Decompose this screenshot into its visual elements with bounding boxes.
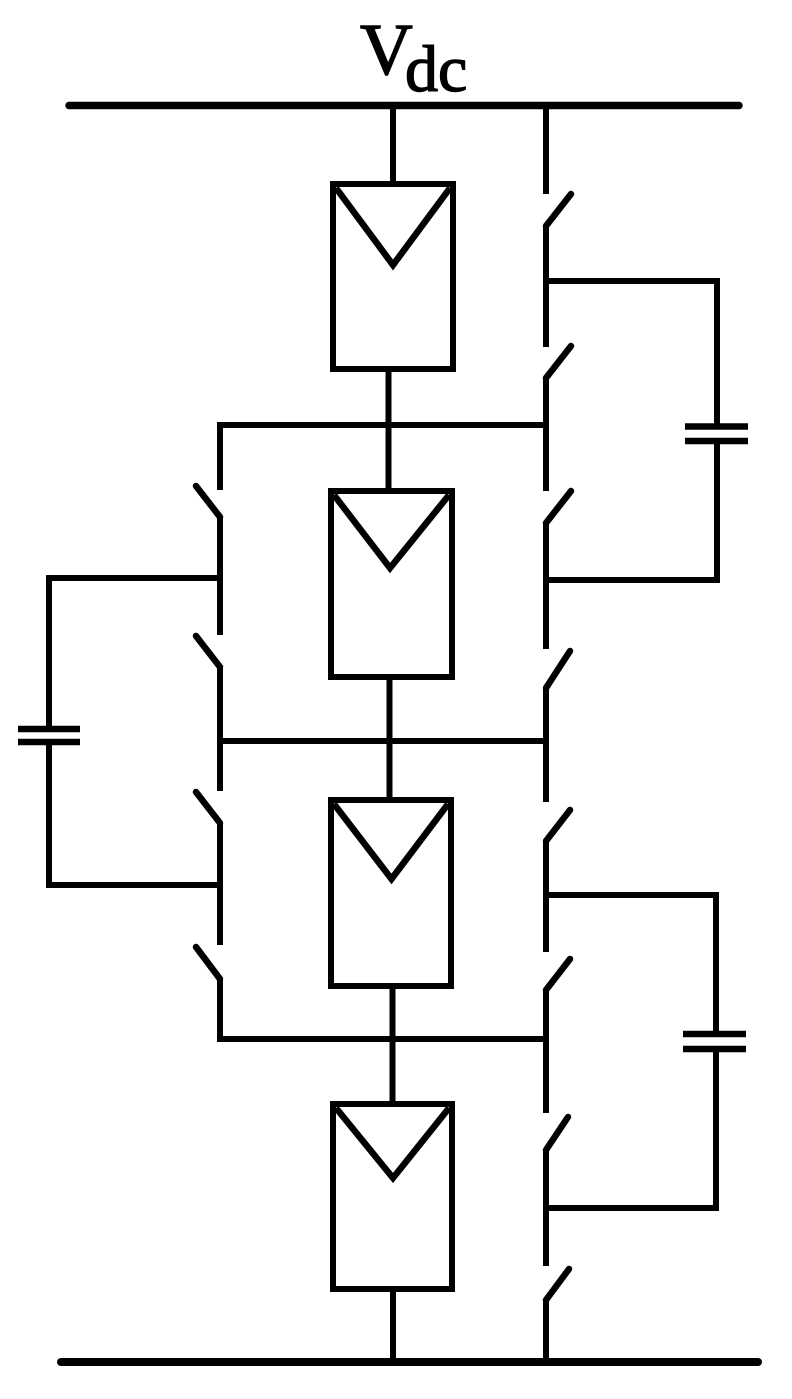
switch S7 [546, 491, 571, 523]
switch S5 [546, 194, 571, 226]
wire S10 to N3 [543, 990, 549, 1042]
wire C3 bottom tap [543, 1205, 719, 1211]
wire tap to S6 [543, 281, 549, 347]
switch S9 [546, 810, 570, 841]
wire left branch N1 to S1 [217, 422, 223, 490]
svg-text:dc: dc [405, 33, 467, 106]
switch S10 [546, 959, 570, 990]
wire tap to S10 [543, 895, 549, 952]
wire S7 to C2 bottom tap [543, 523, 549, 583]
switch S6 [546, 346, 571, 378]
wire C2 bottom tap [543, 577, 720, 583]
wire tap to S2 [217, 578, 223, 635]
wire bottom bus [61, 1358, 758, 1366]
wire tap to S4 [217, 885, 223, 945]
wire PV4 to bottom bus [390, 1289, 396, 1362]
wire N1 to S7 [543, 422, 549, 491]
solar panel PV1 [333, 184, 453, 369]
switch S8 [546, 651, 570, 688]
wire PV3 to PV4 [390, 986, 396, 1104]
switch S1 [196, 486, 220, 517]
node N1 wire (between PV1 and PV2) [217, 422, 549, 428]
wire C2 bottom lead [714, 444, 720, 583]
wire top bus Vdc [69, 102, 739, 110]
wire tap to S12 [543, 1208, 549, 1266]
wire C1 bottom tap [46, 882, 223, 888]
capacitor C3 [683, 1034, 746, 1049]
wire C1 bottom lead [46, 745, 52, 888]
capacitor C2 [685, 427, 748, 442]
wire C3 bottom lead [713, 1052, 719, 1211]
wire S8 to N2 [543, 688, 549, 744]
wire C2 top lead [714, 278, 720, 424]
node N2 wire (between PV2 and PV3) [217, 738, 549, 744]
wire C1 top lead [46, 575, 52, 726]
switch S2 [196, 636, 220, 667]
wire tap to S8 [543, 580, 549, 649]
switch S11 [546, 1117, 568, 1150]
switch S4 [196, 947, 220, 979]
capacitor C1 [18, 729, 80, 742]
wire S1 to C1 top tap [217, 517, 223, 581]
wire S6 to N1 [543, 378, 549, 428]
wire S2 to N2 [217, 667, 223, 744]
wire S4 to N3 [217, 979, 223, 1042]
solar panel PV2 [331, 491, 452, 677]
switch S3 [196, 792, 220, 823]
wire PV1 to PV2 [386, 369, 392, 491]
wire S11 to C3 bottom tap [543, 1150, 549, 1211]
wire N2 to S3 [217, 738, 223, 791]
wire right branch bus to S5 [543, 102, 549, 194]
wire N2 to S9 [543, 738, 549, 802]
solar panel PV4 [333, 1104, 452, 1289]
node Vdc label [360, 9, 467, 106]
wire C3 top lead [713, 892, 719, 1031]
wire C1 top tap [46, 575, 223, 581]
solar panel PV3 [331, 800, 451, 986]
wire S5 to C2 top tap [543, 226, 549, 284]
node N3 wire (between PV3 and PV4) [217, 1036, 549, 1042]
wire C3 top tap [543, 892, 719, 898]
wire N3 to S11 [543, 1036, 549, 1113]
wire PV2 to PV3 [387, 677, 393, 800]
wire S3 to C1 bottom tap [217, 823, 223, 888]
switch S12 [546, 1269, 569, 1300]
wire S9 to C3 top tap [543, 841, 549, 898]
wire S12 to bottom bus [543, 1300, 549, 1362]
wire C2 top tap [543, 278, 720, 284]
wire bus to PV1 [390, 105, 396, 184]
